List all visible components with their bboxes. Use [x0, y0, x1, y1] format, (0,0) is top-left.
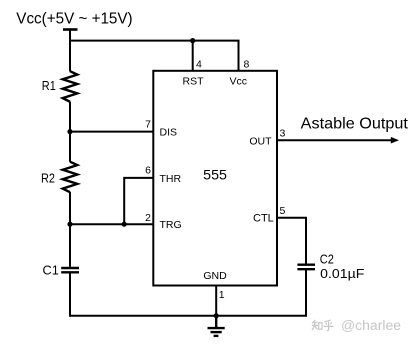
svg-text:R2: R2 [41, 171, 55, 185]
svg-text:555: 555 [203, 167, 227, 182]
svg-text:CTL: CTL [253, 212, 274, 224]
wire: GND pin1 drop [215, 286, 217, 316]
wire: OUT pin3 arrow [277, 139, 392, 141]
capacitor C2 [297, 265, 315, 270]
node: junction top rail/pin4 [190, 38, 195, 43]
svg-text:DIS: DIS [160, 127, 178, 139]
svg-text:2: 2 [145, 212, 151, 224]
svg-text:RST: RST [183, 76, 205, 88]
power terminal Vcc [63, 28, 78, 31]
svg-text:Vcc(+5V ~ +15V): Vcc(+5V ~ +15V) [16, 11, 132, 28]
wire: top rail to pins 4 and 8 [70, 41, 239, 71]
ground [208, 316, 225, 336]
IC U1 555 body [153, 71, 277, 286]
svg-text:C2: C2 [320, 252, 334, 267]
node: junction rail/TRG [67, 222, 72, 227]
node: junction THR/TRG [122, 222, 127, 227]
svg-text:0.01µF: 0.01µF [320, 266, 364, 281]
svg-text:Vcc: Vcc [230, 76, 248, 88]
svg-text:7: 7 [145, 118, 151, 130]
capacitor C1 [61, 268, 79, 272]
resistor R1 [63, 71, 78, 102]
svg-text:6: 6 [145, 165, 151, 177]
wire: bottom ground rail [70, 270, 306, 316]
wire: DIS pin7 horizontal [70, 131, 154, 133]
wire: pin4 drop [192, 41, 194, 71]
svg-text:8: 8 [244, 59, 250, 71]
svg-text:3: 3 [280, 128, 286, 140]
node: junction rail/DIS [67, 129, 72, 134]
wire: TRG pin2 horizontal [70, 223, 154, 225]
resistor R2 [63, 162, 78, 193]
wire: CTL pin5 to C2 [277, 218, 306, 264]
svg-text:@charlee: @charlee [341, 318, 401, 333]
wire: rail R1 to R2 [69, 102, 71, 162]
svg-text:R1: R1 [42, 79, 56, 93]
svg-text:Astable Output: Astable Output [301, 116, 409, 133]
svg-text:GND: GND [203, 270, 227, 282]
wire: rail R2 to C1 [69, 192, 71, 267]
svg-text:1: 1 [219, 289, 225, 301]
svg-text:4: 4 [196, 59, 202, 71]
svg-text:OUT: OUT [249, 135, 272, 147]
svg-text:THR: THR [160, 173, 182, 185]
wire: Vcc rail down to R1 [69, 30, 71, 72]
svg-text:5: 5 [280, 205, 286, 217]
node: junction bottom rail/pin1 [214, 313, 219, 318]
svg-text:TRG: TRG [160, 219, 182, 231]
watermark zhihu @charlee [312, 318, 401, 333]
wire: THR pin6 branch [124, 178, 154, 224]
svg-text:C1: C1 [43, 262, 59, 277]
wire: C1 to bottom rail [69, 272, 71, 316]
